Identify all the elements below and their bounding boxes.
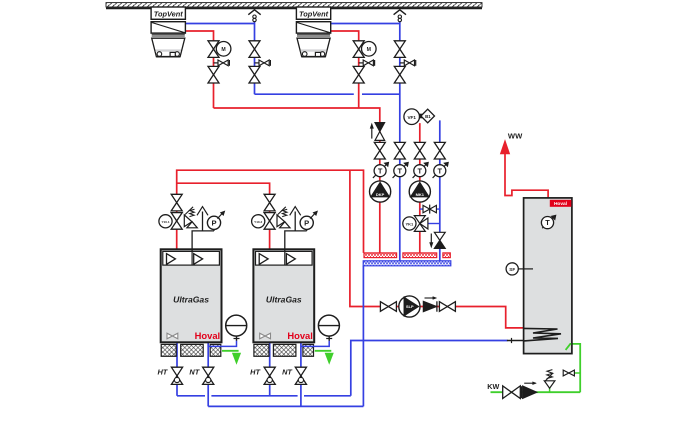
svg-text:VF1: VF1 xyxy=(407,115,416,120)
valve NT xyxy=(203,367,214,376)
wire blue return header segment left xyxy=(255,93,354,95)
check valve loading line xyxy=(423,301,436,311)
svg-text:M: M xyxy=(367,47,371,53)
shutoff valve boiler 1 supply xyxy=(171,194,182,202)
safety valve KW line xyxy=(544,381,555,388)
discharge funnel xyxy=(197,207,208,216)
wire blue riser return MK1 circuit xyxy=(439,120,441,260)
wire red riser MK1 circuit xyxy=(419,123,421,253)
boiler 1 feet xyxy=(161,344,176,356)
svg-text:B1: B1 xyxy=(425,114,431,119)
svg-text:NT: NT xyxy=(282,367,293,376)
wire blue NT return line xyxy=(208,405,363,407)
arrow WW flow direction xyxy=(500,140,509,153)
svg-text:YK1: YK1 xyxy=(406,221,415,226)
drain tap tank xyxy=(563,370,569,376)
svg-text:T: T xyxy=(378,166,383,175)
TopVent unit 1 casing xyxy=(151,7,185,19)
thermometer return riser MK1 xyxy=(433,165,446,178)
boiler 2 internal drain valve xyxy=(260,333,265,339)
boiler 1 internal drain valve xyxy=(167,333,172,339)
motor valve M TopVent 2 supply xyxy=(353,41,364,49)
safety valve with spring xyxy=(184,215,192,227)
shutoff valve loading pump right xyxy=(439,302,447,312)
boiler 1 flow arrow right xyxy=(194,254,203,265)
thermometer tank xyxy=(542,217,553,228)
sensor SF xyxy=(518,268,533,270)
valve NT xyxy=(295,367,306,376)
shutoff valve loading pump left xyxy=(380,302,388,312)
svg-text:M: M xyxy=(221,47,225,53)
wire blue HT boiler 1 drop xyxy=(176,342,178,396)
TopVent unit 1 damper section xyxy=(151,22,185,33)
svg-text:P: P xyxy=(304,219,309,228)
pump SLP storage loading xyxy=(399,296,420,317)
TopVent unit 2 damper section xyxy=(296,22,330,33)
wire red supply TopVent 2 xyxy=(331,31,359,108)
thermometer DKP riser xyxy=(373,165,386,178)
three-way valve YK1 xyxy=(414,216,425,224)
wire blue expansion vessel 2 connection xyxy=(301,341,329,347)
svg-text:MK1: MK1 xyxy=(416,192,425,197)
shutoff valves TopVent 2 return xyxy=(394,41,405,49)
wire red WW outlet from tank xyxy=(505,153,548,198)
svg-text:UltraGas: UltraGas xyxy=(266,295,302,305)
svg-text:T: T xyxy=(438,166,443,175)
wire blue riser valve group 2 down to station xyxy=(399,22,401,261)
heating coil in tank xyxy=(524,328,561,341)
wire red boiler supply header xyxy=(177,170,364,253)
svg-text:SF: SF xyxy=(509,267,515,272)
wire red boiler 2 connection xyxy=(269,211,271,251)
wire blue NT boiler 1 drop xyxy=(207,342,209,406)
shutoff valves TopVent 1 return xyxy=(249,41,260,49)
wire blue HT boiler 2 drop xyxy=(269,342,271,396)
wire green safety valve stub xyxy=(549,388,551,392)
motor valve M TopVent 1 supply xyxy=(208,41,219,49)
shutoff valve boiler 2 supply xyxy=(264,194,275,202)
boiler 2 feet xyxy=(254,344,269,356)
sensor VF1 xyxy=(404,109,420,125)
safety group piping xyxy=(285,231,307,252)
svg-text:KW: KW xyxy=(487,382,499,391)
shutoff valve MK1 riser xyxy=(414,142,425,150)
svg-text:T: T xyxy=(545,218,550,227)
svg-text:Hoval: Hoval xyxy=(287,330,313,341)
return manifold (blue) xyxy=(363,261,451,266)
storage tank body xyxy=(524,198,572,354)
wire blue return header segment right xyxy=(362,93,400,95)
boiler 1 top band xyxy=(163,251,220,265)
motor valve boiler 2 supply xyxy=(264,213,275,221)
motor valve boiler 1 supply xyxy=(171,213,182,221)
actuator Y10.2 xyxy=(252,215,265,228)
discharge funnel xyxy=(290,207,301,216)
svg-text:UltraGas: UltraGas xyxy=(173,295,209,305)
wire red boiler 1 connection xyxy=(176,211,178,251)
overflow valve on TopVent supply riser xyxy=(375,123,385,132)
overflow valve return riser xyxy=(434,232,445,240)
svg-text:TopVent: TopVent xyxy=(299,9,329,18)
air vent 2 xyxy=(394,10,406,15)
wire check valve bypass branch xyxy=(420,208,440,210)
actuator YK1 xyxy=(403,217,416,230)
svg-text:SLP: SLP xyxy=(406,304,414,309)
wire green drain boiler 2 xyxy=(315,350,332,352)
arrow drain boiler 1 xyxy=(233,353,241,364)
svg-text:TopVent: TopVent xyxy=(154,9,184,18)
wire blue stub YK1 to return xyxy=(428,223,440,225)
shutoff valve return riser TopVent xyxy=(394,142,405,150)
TopVent unit 2 discharge hopper xyxy=(297,38,330,57)
boiler 2 flow arrow left xyxy=(259,254,268,265)
wire blue HT return line xyxy=(177,395,205,397)
svg-text:T: T xyxy=(418,166,423,175)
label Hoval tank xyxy=(550,200,572,207)
actuator Y10.1 xyxy=(159,215,172,228)
wire green drain tap stub xyxy=(575,372,581,374)
TopVent unit 2 casing xyxy=(296,7,330,19)
wire green drain boiler 1 xyxy=(222,350,239,352)
wire red supply TopVent 1 xyxy=(185,31,213,108)
valve HT xyxy=(171,367,182,376)
valve HT xyxy=(264,367,275,376)
wire blue supply TopVent 1 to air vent xyxy=(185,23,254,25)
svg-text:Y10.2: Y10.2 xyxy=(254,220,262,224)
wire green KW cold water line xyxy=(491,391,581,393)
wire green riser to tank bottom xyxy=(570,344,580,392)
shutoff valve return riser MK1 xyxy=(434,142,445,150)
svg-text:P: P xyxy=(211,219,216,228)
wire red supply tee to storage loading pump xyxy=(350,170,524,328)
TopVent unit 2 lip xyxy=(297,33,330,35)
sensor B1 xyxy=(419,114,422,119)
TopVent unit 1 discharge hopper xyxy=(152,38,185,57)
wire blue return manifold down to NT line xyxy=(362,266,364,407)
thermometer return riser TopVent xyxy=(393,165,406,178)
wire red branch to boiler 2 xyxy=(177,183,270,194)
shutoff valve KW xyxy=(503,386,512,399)
expansion vessel xyxy=(328,336,330,341)
check valve bypass MK1 xyxy=(423,205,430,212)
wire blue NT boiler 2 drop xyxy=(300,342,302,406)
svg-text:WW: WW xyxy=(508,132,523,141)
boiler UltraGas 2 body xyxy=(253,249,314,342)
ceiling with hatching xyxy=(106,3,482,7)
wire green into tank interior xyxy=(566,344,572,350)
wire blue storage return to HT line xyxy=(351,341,508,396)
wire blue supply TopVent 2 to air vent xyxy=(331,23,400,25)
expansion vessel xyxy=(236,336,238,341)
svg-text:Hoval: Hoval xyxy=(554,201,567,207)
wire blue riser valve group 1 xyxy=(254,22,256,95)
TopVent unit 1 lip xyxy=(152,33,185,35)
check valve KW xyxy=(520,386,522,398)
svg-text:Hoval: Hoval xyxy=(195,330,221,341)
pressure gauge P xyxy=(207,216,220,229)
boiler UltraGas 1 body xyxy=(161,249,222,342)
svg-text:HT: HT xyxy=(157,367,168,376)
svg-text:NT: NT xyxy=(189,367,200,376)
boiler 1 flow arrow left xyxy=(167,254,176,265)
shutoff valve DKP riser xyxy=(374,142,385,150)
wire red supply header to riser xyxy=(214,108,380,253)
svg-text:HT: HT xyxy=(250,367,261,376)
boiler 2 flow arrow right xyxy=(286,254,295,265)
arrow drain boiler 2 xyxy=(325,353,333,364)
safety valve with spring xyxy=(277,215,285,227)
air vent 1 xyxy=(248,10,260,15)
safety group piping xyxy=(192,231,214,252)
wire blue expansion vessel 1 connection xyxy=(208,341,236,347)
svg-text:T: T xyxy=(398,166,403,175)
thermometer MK1 riser xyxy=(413,165,426,178)
svg-text:Y10.1: Y10.1 xyxy=(161,220,169,224)
black stub storage return into tank xyxy=(507,340,524,342)
svg-text:DKP: DKP xyxy=(376,192,385,197)
pressure gauge P xyxy=(300,216,313,229)
supply manifold (red) xyxy=(364,253,397,258)
pump DKP xyxy=(370,181,391,202)
boiler 2 top band xyxy=(256,251,313,265)
pump MK1 xyxy=(409,181,430,202)
